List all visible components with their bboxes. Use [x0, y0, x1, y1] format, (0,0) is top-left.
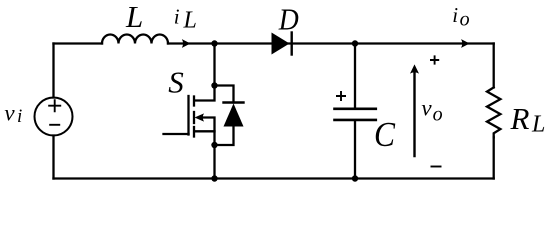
- svg-text:L: L: [531, 111, 545, 137]
- svg-text:v: v: [4, 101, 15, 126]
- svg-text:L: L: [125, 0, 143, 34]
- svg-text:D: D: [278, 1, 299, 36]
- svg-text:o: o: [433, 104, 443, 126]
- svg-text:S: S: [168, 65, 184, 100]
- svg-text:i: i: [17, 106, 22, 127]
- svg-text:o: o: [460, 8, 470, 30]
- svg-text:R: R: [510, 101, 530, 136]
- svg-text:L: L: [183, 8, 197, 34]
- svg-text:i: i: [452, 3, 458, 27]
- svg-text:C: C: [374, 115, 396, 154]
- svg-text:i: i: [174, 5, 180, 29]
- svg-text:v: v: [421, 95, 432, 120]
